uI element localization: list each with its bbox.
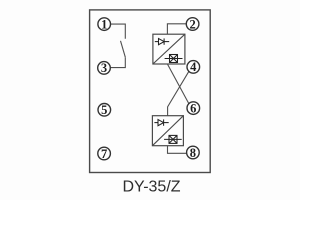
rectifier unit U2 box — [152, 116, 183, 146]
terminal 8 — [187, 146, 200, 160]
svg-text:3: 3 — [101, 61, 107, 75]
svg-text:2: 2 — [189, 17, 195, 31]
svg-text:5: 5 — [101, 103, 107, 117]
svg-text:8: 8 — [190, 146, 196, 160]
svg-text:4: 4 — [190, 60, 197, 74]
terminal 4 — [187, 60, 200, 74]
terminal 3 — [98, 61, 111, 75]
bridge rectifier B2 in U2 — [164, 135, 182, 143]
crossing wire from U1 to terminal 6 — [167, 64, 189, 104]
wire from contact to terminal 3 — [110, 57, 125, 67]
relay case outline — [90, 10, 211, 173]
terminal 1 — [98, 17, 111, 31]
terminal 5 — [98, 103, 111, 117]
svg-text:7: 7 — [101, 147, 107, 161]
wire from U2 to terminal 8 — [168, 146, 187, 154]
contact blade (normally-open switch) — [121, 41, 126, 57]
bridge rectifier B1 in U1 — [165, 55, 183, 63]
svg-text:1: 1 — [101, 17, 107, 31]
crossing wire from terminal 4 to unit U2 — [168, 71, 189, 115]
diode D2 in U2 — [154, 119, 168, 125]
svg-text:DY-35/Z: DY-35/Z — [122, 178, 180, 195]
terminal 6 — [187, 101, 200, 115]
diode D1 in U1 — [155, 38, 169, 44]
svg-text:6: 6 — [190, 101, 196, 115]
wire from terminal 2 to rectifier unit U1 — [167, 24, 186, 34]
terminal 7 — [98, 147, 111, 161]
U2 diagonal divider — [152, 116, 183, 146]
terminal 2 — [186, 17, 199, 31]
rectifier unit U1 box — [153, 34, 185, 64]
wire from terminal 1 to contact — [111, 24, 126, 39]
U1 diagonal divider — [153, 34, 185, 64]
